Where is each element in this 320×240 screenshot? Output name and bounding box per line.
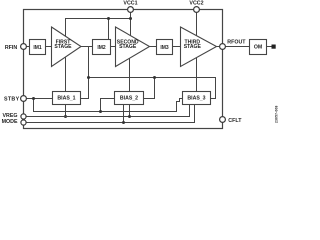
junction dot bias bus at stage1 tap	[87, 76, 90, 79]
outer package boundary U1	[24, 10, 223, 129]
wire STBY to BIAS_1	[26, 98, 53, 100]
svg-text:IM2: IM2	[97, 45, 106, 51]
wire STBY branch riser to BIAS_2	[101, 99, 115, 112]
input match IM1	[30, 40, 46, 55]
wire third stage to RFOUT	[217, 46, 220, 48]
junction dot bias bus BIAS_2 branch	[153, 76, 156, 79]
junction dot BIAS_2 on VREG bus	[128, 115, 131, 118]
wire bias bus branch to BIAS_2	[144, 78, 155, 99]
amplifier third stage	[181, 27, 217, 67]
wire VCC1 supply bus to first stage	[66, 19, 131, 37]
pin VREG	[21, 114, 26, 119]
pin VCC2	[194, 7, 200, 13]
wire BIAS_1 bottom stub to VREG bus	[65, 105, 67, 117]
pin MODE	[21, 120, 26, 125]
wire BIAS_2 right stub to VREG bus	[129, 105, 131, 117]
wire first stage to IM2	[81, 46, 93, 48]
wire second stage to IM3	[150, 46, 157, 48]
pin STBY	[21, 96, 27, 102]
wire VREG bus to BIAS_3	[26, 105, 190, 117]
pin RFIN	[21, 44, 27, 50]
wire first stage to BIAS_1	[65, 58, 67, 92]
bias block BIAS_2	[115, 92, 144, 105]
wire VCC1 drop to second stage	[130, 12, 132, 36]
bias block BIAS_3	[183, 92, 211, 105]
junction dot VCC1	[129, 17, 132, 20]
svg-text:STAGE: STAGE	[119, 44, 137, 50]
svg-text:23057-008: 23057-008	[275, 105, 279, 123]
svg-text:IM1: IM1	[33, 45, 42, 51]
wire IM2 to second stage	[111, 46, 116, 48]
svg-text:STBY: STBY	[4, 97, 20, 103]
svg-text:CFLT: CFLT	[228, 118, 242, 124]
svg-text:VCC1: VCC1	[123, 0, 137, 6]
wire IM3 to third stage	[173, 46, 181, 48]
wire second stage to BIAS_2	[129, 59, 131, 92]
interstage match IM2	[93, 40, 111, 55]
interstage match IM3	[157, 40, 173, 55]
svg-text:IM3: IM3	[160, 45, 169, 51]
wire STBY branch bus to BIAS_3	[34, 99, 183, 112]
pin CFLT	[220, 117, 226, 123]
wire stage1 output tap to bias bus	[88, 47, 90, 78]
svg-text:OM: OM	[254, 45, 262, 51]
junction dot STBY branch riser	[99, 110, 102, 113]
svg-text:BIAS_3: BIAS_3	[187, 95, 205, 101]
wire OM to RF port	[267, 46, 272, 48]
pin VCC1	[128, 7, 134, 13]
wire RFOUT to OM	[225, 46, 249, 48]
pin RFOUT	[220, 44, 226, 50]
svg-text:STAGE: STAGE	[54, 44, 72, 50]
svg-text:MODE: MODE	[2, 119, 18, 125]
wire bias bus to BIAS_3	[89, 78, 216, 99]
wire VCC2 drop to third stage	[196, 12, 198, 36]
junction dot IM2 feed	[107, 17, 110, 20]
svg-text:RFIN: RFIN	[5, 45, 18, 51]
junction dot BIAS_1 on VREG bus	[64, 115, 67, 118]
output match OM	[250, 40, 267, 55]
wire third stage to BIAS_3	[196, 58, 198, 92]
wire IM1 to first stage	[46, 46, 52, 48]
svg-text:VCC2: VCC2	[189, 0, 203, 6]
wire BIAS_1 to bias bus	[81, 78, 89, 99]
junction dot BIAS_2 on MODE bus	[122, 121, 125, 124]
junction dot STBY branch	[32, 97, 35, 100]
svg-text:STAGE: STAGE	[184, 44, 202, 50]
wire MODE bus to BIAS_3	[26, 105, 195, 123]
svg-text:BIAS_1: BIAS_1	[57, 95, 75, 101]
wire VCC1 feed to IM2	[108, 19, 110, 40]
RF output port square	[272, 45, 276, 49]
svg-text:RFOUT: RFOUT	[227, 39, 246, 45]
svg-text:BIAS_2: BIAS_2	[120, 95, 138, 101]
bias block BIAS_1	[53, 92, 81, 105]
amplifier first stage	[52, 27, 82, 67]
amplifier second stage	[116, 27, 150, 67]
wire BIAS_2 left stub to MODE bus	[123, 105, 125, 123]
wire RFIN to IM1	[26, 46, 30, 48]
